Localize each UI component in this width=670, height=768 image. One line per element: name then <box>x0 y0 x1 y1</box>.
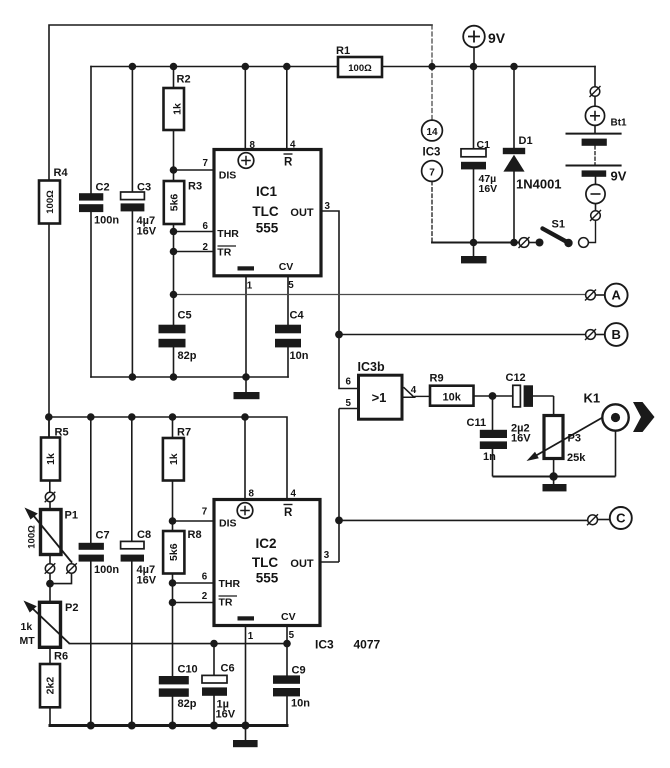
svg-text:100Ω: 100Ω <box>348 63 372 74</box>
resistor R4 <box>39 181 60 224</box>
capacitor C12 <box>513 385 533 407</box>
IC2 pin number labels <box>202 489 297 643</box>
svg-text:R1: R1 <box>336 45 350 57</box>
wire node B line <box>339 334 586 336</box>
svg-text:14: 14 <box>426 127 438 138</box>
wire ground stem bottom <box>245 726 247 741</box>
potentiometer P2 <box>24 601 70 648</box>
svg-text:9V: 9V <box>611 169 627 184</box>
svg-text:1N4001: 1N4001 <box>516 177 562 192</box>
svg-text:4077: 4077 <box>354 638 381 652</box>
capacitor C5 <box>159 325 186 348</box>
node C circle <box>610 507 632 529</box>
svg-text:C12: C12 <box>506 372 526 384</box>
IC3 supply pin 14 circle <box>422 120 443 141</box>
wire node A terminal stub <box>595 294 604 296</box>
wire P1 to P2 via terminals <box>49 555 51 603</box>
IC3b pin labels <box>324 377 417 562</box>
battery Bt1 terminal top <box>590 86 601 97</box>
svg-text:IC1: IC1 <box>256 184 278 199</box>
capacitor C1 <box>461 149 486 170</box>
svg-text:S1: S1 <box>552 219 565 231</box>
svg-text:Bt1: Bt1 <box>611 118 628 129</box>
svg-text:10k: 10k <box>443 391 462 403</box>
wire R5 to P1 <box>49 481 51 510</box>
svg-text:>1: >1 <box>372 390 387 405</box>
IC3 supply pin 7 circle <box>422 161 443 182</box>
wire IC1 pin5 to C4 <box>287 276 289 377</box>
svg-text:6: 6 <box>203 221 209 232</box>
wire lower supply bus <box>49 417 287 499</box>
output arrow at K1 <box>633 402 655 432</box>
junction dots lower timing chain <box>169 517 177 606</box>
wire IC1 pin8 <box>244 67 246 149</box>
wire IC2 pin6 THR <box>173 582 214 584</box>
battery Bt1 cell 2 <box>566 166 622 177</box>
svg-text:1k: 1k <box>45 453 57 465</box>
svg-text:CV: CV <box>281 611 296 623</box>
svg-text:3: 3 <box>324 550 330 561</box>
wire C3 branch <box>131 67 133 378</box>
svg-text:THR: THR <box>217 228 239 240</box>
IC1 pin number labels <box>203 140 331 292</box>
svg-text:DIS: DIS <box>219 169 237 181</box>
resistor R9 <box>430 386 474 406</box>
terminal P1 bottom left <box>45 563 56 574</box>
svg-text:6: 6 <box>346 377 352 388</box>
svg-text:2: 2 <box>203 242 209 253</box>
svg-text:4: 4 <box>291 489 297 500</box>
wire IC1 out pin3 to node B column <box>321 211 359 389</box>
ground symbol at C1 <box>461 256 487 263</box>
junction dots lower supply bus <box>45 413 249 421</box>
terminal below R5 <box>45 492 56 503</box>
wire node A line <box>174 294 586 296</box>
svg-text:10n: 10n <box>291 698 310 710</box>
svg-text:82p: 82p <box>178 698 197 710</box>
svg-text:7: 7 <box>203 158 209 169</box>
svg-text:TR: TR <box>217 247 231 259</box>
diode D1 <box>503 148 525 172</box>
wire C1 branch <box>473 67 475 243</box>
gate IC3b output triangle pin4 <box>404 387 431 397</box>
capacitor C8 <box>121 541 144 561</box>
wire bottom ground bus <box>50 724 287 727</box>
svg-text:2k2: 2k2 <box>45 677 57 695</box>
power symbol +9V <box>463 26 506 67</box>
svg-text:5k6: 5k6 <box>169 194 181 212</box>
svg-text:7: 7 <box>429 167 435 178</box>
wire top loop from R4 column to IC3 pin14 column <box>49 25 432 437</box>
wire C2 branch <box>90 67 92 378</box>
gate IC3b body <box>359 375 403 419</box>
wire negative rail to switch <box>432 242 519 244</box>
wire C6 branch <box>213 644 215 726</box>
svg-text:C1: C1 <box>477 139 491 151</box>
wire IC2 pin5 stub <box>286 626 288 644</box>
battery Bt1 cell 1 <box>566 134 622 146</box>
wire R2-R3 timing chain <box>173 67 175 378</box>
wire IC1 pin4 <box>286 67 288 149</box>
svg-text:C11: C11 <box>467 417 487 429</box>
junction dot output ground <box>549 472 557 480</box>
svg-text:C2: C2 <box>96 182 110 194</box>
wire P2 to R6 <box>49 647 51 664</box>
wire IC1 pin2 TR <box>174 251 214 253</box>
wire K1 bottom <box>615 431 617 477</box>
svg-text:R9: R9 <box>430 373 444 385</box>
wire C7 branch <box>90 417 92 726</box>
svg-text:P2: P2 <box>65 602 78 614</box>
svg-text:5: 5 <box>289 630 295 641</box>
svg-text:25k: 25k <box>567 452 586 464</box>
wire battery positive drop <box>594 67 596 134</box>
svg-text:DIS: DIS <box>219 517 237 529</box>
svg-text:B: B <box>612 327 621 342</box>
svg-text:4: 4 <box>290 140 296 151</box>
wire left column R4 to R5 <box>48 417 50 438</box>
wire R6 to bottom bus <box>49 707 51 725</box>
resistor R1 <box>338 57 382 77</box>
svg-text:R6: R6 <box>54 651 68 663</box>
svg-text:R3: R3 <box>188 181 202 193</box>
capacitor C9 <box>273 675 300 696</box>
wire IC2 pin2 TR <box>173 602 214 604</box>
svg-text:R: R <box>284 507 293 519</box>
svg-text:C10: C10 <box>178 664 198 676</box>
wire ground stem at C1 <box>473 243 475 257</box>
capacitor C6 <box>202 675 227 695</box>
svg-text:1n: 1n <box>483 451 496 463</box>
svg-text:9V: 9V <box>488 30 506 46</box>
capacitor C11 <box>480 430 507 449</box>
junction dot at R9 output <box>489 392 497 400</box>
wire IC1 pin1 to ground bus <box>245 276 247 377</box>
svg-text:IC3b: IC3b <box>358 360 385 374</box>
svg-text:16V: 16V <box>479 183 498 195</box>
capacitor C4 <box>275 325 301 348</box>
wire IC3 supply pin14 <box>431 67 433 121</box>
wire node B terminal stub <box>595 334 604 336</box>
wire node C line <box>339 519 587 521</box>
svg-text:8: 8 <box>250 140 256 151</box>
wire C9 branch <box>286 644 288 726</box>
wire C11 branch <box>492 396 494 477</box>
svg-text:C3: C3 <box>137 182 151 194</box>
svg-text:CV: CV <box>279 261 294 273</box>
resistor R7 <box>163 438 184 481</box>
junction dots bottom bus <box>87 722 250 730</box>
svg-text:1k: 1k <box>172 103 184 115</box>
node B junction dot <box>335 331 343 339</box>
svg-text:MT: MT <box>20 635 36 647</box>
ground symbol under IC1 <box>234 392 260 399</box>
wire ground bus under IC1 <box>91 376 288 378</box>
svg-text:1k: 1k <box>168 453 180 465</box>
svg-text:1: 1 <box>247 281 253 292</box>
capacitor C7 <box>79 543 104 562</box>
wire IC3b pin5 from IC2 out <box>321 409 359 563</box>
svg-text:R5: R5 <box>55 427 69 439</box>
capacitor C10 <box>159 676 189 697</box>
svg-text:6: 6 <box>202 572 208 583</box>
junction dots negative rail <box>470 239 518 247</box>
battery Bt1 plus circle <box>585 106 604 125</box>
svg-text:1: 1 <box>248 631 254 642</box>
capacitor C3 <box>121 192 145 211</box>
junction dots ground bus <box>129 373 250 381</box>
svg-text:10n: 10n <box>290 350 309 362</box>
svg-text:TLC: TLC <box>252 555 278 570</box>
svg-text:100Ω: 100Ω <box>45 190 56 214</box>
terminal P1 wiper <box>66 563 77 574</box>
wire P2 wiper line to IC2 pin5 <box>70 643 288 645</box>
wire IC2 pin1 to bottom bus <box>245 626 247 726</box>
wire ground stem output <box>553 477 555 485</box>
wire IC1 pin7 DIS <box>174 169 214 171</box>
svg-text:R2: R2 <box>177 74 191 86</box>
svg-text:IC3: IC3 <box>423 147 441 159</box>
svg-text:16V: 16V <box>137 226 157 238</box>
svg-text:P1: P1 <box>65 510 78 522</box>
svg-text:C5: C5 <box>178 310 192 322</box>
svg-text:8: 8 <box>249 489 255 500</box>
wire ground stem under IC1 <box>245 377 247 392</box>
wire D1 branch <box>513 67 515 243</box>
svg-text:3: 3 <box>325 201 331 212</box>
svg-text:100n: 100n <box>94 215 119 227</box>
svg-text:5k6: 5k6 <box>168 543 180 561</box>
svg-text:IC2: IC2 <box>255 536 276 551</box>
wire R7-R8 timing chain lower <box>172 417 174 726</box>
svg-text:555: 555 <box>256 220 279 235</box>
wire +9V supply bus <box>91 66 595 68</box>
wire IC2 pin8 <box>244 417 246 499</box>
junction dots R2-R3 chain <box>170 166 178 298</box>
resistor R3 <box>164 181 184 224</box>
svg-text:5: 5 <box>346 398 352 409</box>
wire P3 bottom <box>553 459 555 477</box>
svg-text:2: 2 <box>202 591 208 602</box>
svg-text:R: R <box>284 157 293 169</box>
wire dashed drop to supply junction <box>431 25 433 67</box>
svg-text:TLC: TLC <box>252 204 278 219</box>
resistor R6 <box>40 664 60 707</box>
resistor R8 <box>163 531 184 574</box>
svg-text:C9: C9 <box>292 665 306 677</box>
potentiometer P3 <box>527 416 603 462</box>
battery Bt1 minus circle <box>586 184 605 203</box>
ground symbol bottom <box>233 740 258 747</box>
svg-text:P3: P3 <box>568 433 581 445</box>
wire battery inter-cell dashed <box>594 146 596 165</box>
node C terminal <box>587 514 610 525</box>
wire IC3 supply pin7 to ground rail <box>431 181 433 242</box>
node A terminal <box>585 290 596 301</box>
svg-text:1k: 1k <box>21 621 33 633</box>
svg-text:100n: 100n <box>94 564 119 576</box>
svg-text:16V: 16V <box>511 433 531 445</box>
node B circle <box>605 323 628 346</box>
wire R9 to C12 <box>474 395 514 397</box>
svg-text:C8: C8 <box>137 529 151 541</box>
resistor R2 <box>164 88 185 130</box>
svg-text:16V: 16V <box>216 709 236 721</box>
wire switch to battery dashed <box>589 220 596 242</box>
switch S1 <box>519 229 589 249</box>
svg-text:A: A <box>612 288 622 303</box>
svg-text:100Ω: 100Ω <box>27 525 38 549</box>
junction dots top bus <box>129 63 518 71</box>
node C junction dot <box>335 517 343 525</box>
svg-text:OUT: OUT <box>290 558 314 570</box>
wire IC2 pin7 DIS <box>173 520 214 522</box>
svg-text:K1: K1 <box>584 391 601 406</box>
resistor R5 <box>41 438 60 481</box>
svg-text:TR: TR <box>219 597 233 609</box>
node A circle <box>605 284 628 307</box>
junction dots CV line <box>210 640 291 648</box>
wire C12 to P3 <box>533 396 554 416</box>
svg-text:4: 4 <box>411 385 417 396</box>
svg-text:82p: 82p <box>178 350 197 362</box>
junction dot P1 wiper <box>46 580 54 588</box>
wire battery negative to switch <box>595 177 597 211</box>
svg-text:R8: R8 <box>188 529 202 541</box>
ground symbol output <box>543 484 567 491</box>
svg-text:THR: THR <box>219 578 241 590</box>
svg-text:OUT: OUT <box>290 207 314 219</box>
svg-text:C4: C4 <box>290 310 305 322</box>
capacitor C2 <box>79 193 103 212</box>
wire IC1 pin6 THR <box>174 231 214 233</box>
svg-text:7: 7 <box>202 507 208 518</box>
svg-text:C7: C7 <box>96 530 110 542</box>
node B terminal <box>585 329 596 340</box>
wire C8 branch <box>131 417 133 726</box>
svg-text:R7: R7 <box>177 427 191 439</box>
svg-text:C: C <box>616 511 626 526</box>
svg-text:555: 555 <box>256 570 279 585</box>
svg-text:R4: R4 <box>54 167 69 179</box>
svg-text:D1: D1 <box>519 135 533 147</box>
connector K1 <box>602 404 628 430</box>
battery Bt1 terminal bottom <box>590 210 601 221</box>
svg-text:IC3: IC3 <box>315 638 334 652</box>
op-amp IC2 555 body <box>214 500 320 626</box>
svg-text:C6: C6 <box>221 663 235 675</box>
op-amp IC1 555 body <box>214 150 321 276</box>
svg-text:16V: 16V <box>137 575 157 587</box>
svg-text:5: 5 <box>288 280 294 291</box>
wire P1 wiper to left junction <box>50 562 72 584</box>
wire bottom rail of output stage <box>493 476 616 478</box>
potentiometer P1 <box>25 508 72 562</box>
